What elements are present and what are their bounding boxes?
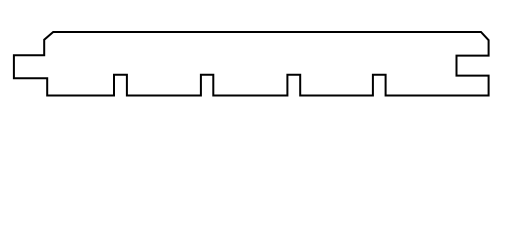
tongue-and-groove plank profile outline [0, 0, 511, 118]
